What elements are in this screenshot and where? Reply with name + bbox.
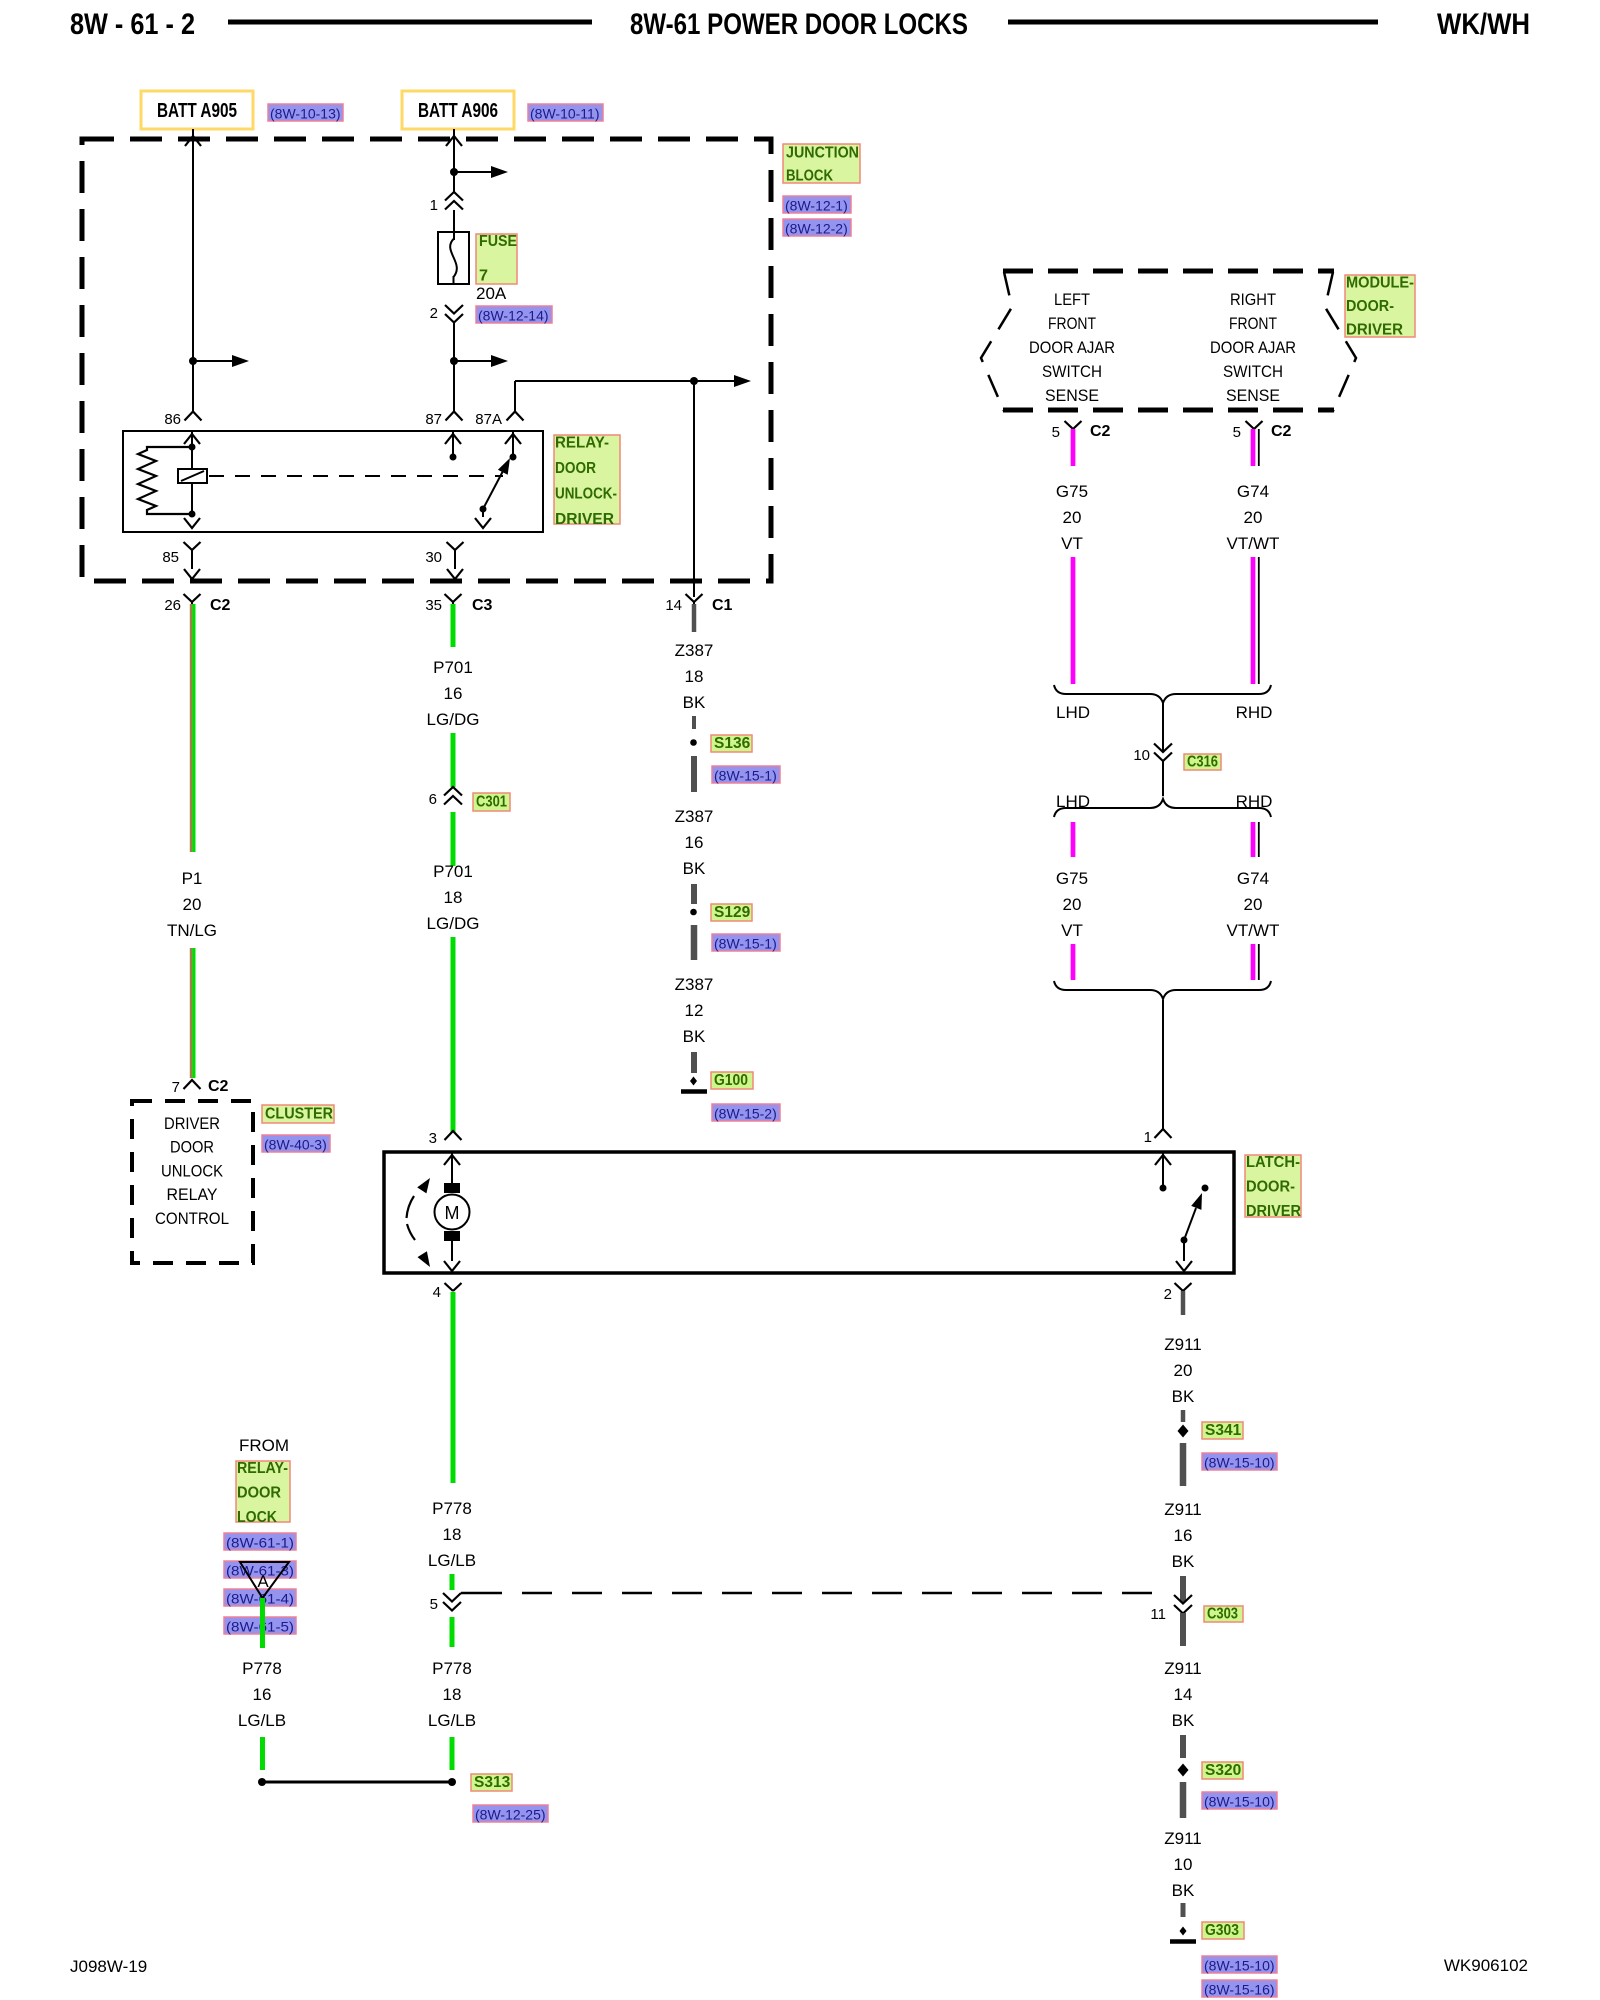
svg-text:JUNCTION: JUNCTION xyxy=(786,145,859,162)
svg-text:A: A xyxy=(257,1572,269,1591)
svg-text:BATT A906: BATT A906 xyxy=(418,100,498,122)
svg-text:LG/DG: LG/DG xyxy=(427,914,480,933)
svg-text:20: 20 xyxy=(1244,895,1263,914)
svg-text:P1: P1 xyxy=(182,869,203,888)
svg-text:18: 18 xyxy=(685,667,704,686)
svg-text:1: 1 xyxy=(430,197,438,214)
svg-text:WK/WH: WK/WH xyxy=(1437,8,1530,41)
svg-text:RELAY-: RELAY- xyxy=(555,435,609,452)
svg-text:Z387: Z387 xyxy=(675,807,714,826)
svg-text:18: 18 xyxy=(444,888,463,907)
svg-text:BK: BK xyxy=(1172,1881,1195,1900)
svg-text:G303: G303 xyxy=(1205,1922,1239,1939)
svg-text:87: 87 xyxy=(425,411,442,428)
svg-text:RELAY: RELAY xyxy=(167,1185,218,1204)
svg-text:18: 18 xyxy=(443,1685,462,1704)
svg-text:DOOR-: DOOR- xyxy=(1346,298,1394,315)
svg-text:C301: C301 xyxy=(476,794,507,811)
svg-text:2: 2 xyxy=(430,305,438,322)
svg-text:BK: BK xyxy=(683,693,706,712)
svg-text:TN/LG: TN/LG xyxy=(167,921,217,940)
svg-text:Z911: Z911 xyxy=(1164,1335,1202,1354)
svg-text:(8W-15-10): (8W-15-10) xyxy=(1204,1455,1275,1471)
svg-text:14: 14 xyxy=(665,597,682,614)
svg-text:(8W-15-1): (8W-15-1) xyxy=(714,768,777,784)
svg-text:(8W-10-11): (8W-10-11) xyxy=(530,106,600,122)
svg-text:C2: C2 xyxy=(1090,423,1111,440)
svg-text:CLUSTER: CLUSTER xyxy=(265,1106,333,1123)
svg-text:BLOCK: BLOCK xyxy=(786,168,834,185)
svg-text:(8W-12-1): (8W-12-1) xyxy=(785,198,848,214)
svg-text:16: 16 xyxy=(1174,1526,1193,1545)
svg-text:7: 7 xyxy=(172,1079,180,1096)
svg-text:RIGHT: RIGHT xyxy=(1230,290,1276,309)
svg-text:G74: G74 xyxy=(1237,482,1269,501)
svg-text:MODULE-: MODULE- xyxy=(1346,275,1414,292)
svg-text:SWITCH: SWITCH xyxy=(1042,362,1102,381)
svg-text:8W - 61 - 2: 8W - 61 - 2 xyxy=(70,8,195,41)
svg-text:VT: VT xyxy=(1061,534,1083,553)
svg-text:30: 30 xyxy=(425,549,442,566)
svg-text:C2: C2 xyxy=(1271,423,1292,440)
svg-text:FUSE: FUSE xyxy=(479,233,517,250)
svg-text:LG/LB: LG/LB xyxy=(428,1711,476,1730)
svg-text:C316: C316 xyxy=(1187,754,1218,771)
svg-text:S313: S313 xyxy=(474,1774,511,1791)
svg-text:FRONT: FRONT xyxy=(1048,314,1096,333)
svg-text:7: 7 xyxy=(479,268,488,285)
svg-text:26: 26 xyxy=(164,597,181,614)
svg-text:(8W-12-14): (8W-12-14) xyxy=(478,308,549,324)
svg-text:LG/DG: LG/DG xyxy=(427,710,480,729)
svg-text:P778: P778 xyxy=(432,1659,472,1678)
svg-text:DRIVER: DRIVER xyxy=(1346,322,1403,339)
svg-text:G74: G74 xyxy=(1237,869,1269,888)
svg-text:3: 3 xyxy=(429,1130,437,1147)
svg-text:P778: P778 xyxy=(242,1659,282,1678)
svg-text:LHD: LHD xyxy=(1056,703,1090,722)
svg-text:Z911: Z911 xyxy=(1164,1829,1202,1848)
svg-text:(8W-61-1): (8W-61-1) xyxy=(226,1535,294,1551)
svg-text:35: 35 xyxy=(425,597,442,614)
svg-text:87A: 87A xyxy=(475,411,502,428)
svg-text:10: 10 xyxy=(1133,747,1150,764)
svg-text:S341: S341 xyxy=(1205,1422,1242,1439)
svg-text:SENSE: SENSE xyxy=(1226,386,1280,405)
svg-text:5: 5 xyxy=(430,1596,438,1613)
svg-text:20: 20 xyxy=(183,895,202,914)
svg-text:DOOR-: DOOR- xyxy=(1246,1179,1295,1196)
svg-text:DRIVER: DRIVER xyxy=(164,1114,220,1133)
svg-text:SENSE: SENSE xyxy=(1045,386,1099,405)
svg-text:RELAY-: RELAY- xyxy=(237,1460,288,1477)
svg-text:18: 18 xyxy=(443,1525,462,1544)
svg-text:VT/WT: VT/WT xyxy=(1227,534,1280,553)
svg-text:16: 16 xyxy=(253,1685,272,1704)
svg-text:LOCK: LOCK xyxy=(237,1509,278,1526)
svg-text:Z387: Z387 xyxy=(675,641,714,660)
svg-text:Z911: Z911 xyxy=(1164,1500,1202,1519)
svg-text:20: 20 xyxy=(1174,1361,1193,1380)
svg-text:J098W-19: J098W-19 xyxy=(70,1957,147,1976)
svg-text:BATT A905: BATT A905 xyxy=(157,100,237,122)
svg-text:FROM: FROM xyxy=(239,1436,289,1455)
svg-text:RHD: RHD xyxy=(1236,703,1273,722)
svg-text:WK906102: WK906102 xyxy=(1444,1956,1528,1975)
svg-text:BK: BK xyxy=(683,859,706,878)
svg-text:G75: G75 xyxy=(1056,482,1088,501)
svg-text:(8W-15-10): (8W-15-10) xyxy=(1204,1794,1275,1810)
svg-text:DOOR: DOOR xyxy=(170,1138,214,1157)
svg-text:BK: BK xyxy=(1172,1552,1195,1571)
svg-text:(8W-15-16): (8W-15-16) xyxy=(1204,1982,1275,1998)
svg-text:BK: BK xyxy=(1172,1387,1195,1406)
svg-text:4: 4 xyxy=(433,1284,441,1301)
svg-text:UNLOCK-: UNLOCK- xyxy=(555,486,617,503)
svg-text:M: M xyxy=(445,1203,460,1223)
svg-text:86: 86 xyxy=(164,411,181,428)
svg-text:BK: BK xyxy=(683,1027,706,1046)
svg-text:16: 16 xyxy=(444,684,463,703)
svg-text:CONTROL: CONTROL xyxy=(155,1209,229,1228)
svg-text:C1: C1 xyxy=(712,597,733,614)
svg-text:C2: C2 xyxy=(208,1078,229,1095)
svg-text:C2: C2 xyxy=(210,597,231,614)
svg-text:S136: S136 xyxy=(714,735,751,752)
svg-text:2: 2 xyxy=(1164,1286,1172,1303)
svg-text:VT/WT: VT/WT xyxy=(1227,921,1280,940)
svg-text:G75: G75 xyxy=(1056,869,1088,888)
svg-text:P701: P701 xyxy=(433,862,473,881)
svg-text:8W-61 POWER DOOR LOCKS: 8W-61 POWER DOOR LOCKS xyxy=(630,8,968,41)
svg-text:(8W-12-2): (8W-12-2) xyxy=(785,221,848,237)
svg-text:(8W-40-3): (8W-40-3) xyxy=(264,1137,327,1153)
svg-text:(8W-10-13): (8W-10-13) xyxy=(270,106,341,122)
svg-text:(8W-15-2): (8W-15-2) xyxy=(714,1106,777,1122)
svg-text:Z911: Z911 xyxy=(1164,1659,1202,1678)
svg-text:DOOR: DOOR xyxy=(555,460,596,477)
svg-text:SWITCH: SWITCH xyxy=(1223,362,1283,381)
svg-text:DRIVER: DRIVER xyxy=(555,511,614,528)
svg-text:BK: BK xyxy=(1172,1711,1195,1730)
svg-text:LATCH-: LATCH- xyxy=(1246,1154,1300,1171)
svg-text:10: 10 xyxy=(1174,1855,1193,1874)
svg-text:12: 12 xyxy=(685,1001,704,1020)
svg-text:85: 85 xyxy=(162,549,179,566)
svg-text:FRONT: FRONT xyxy=(1229,314,1277,333)
svg-text:6: 6 xyxy=(429,791,437,808)
svg-text:DOOR: DOOR xyxy=(237,1484,281,1501)
svg-text:5: 5 xyxy=(1052,424,1060,441)
svg-text:S129: S129 xyxy=(714,904,751,921)
svg-text:20: 20 xyxy=(1244,508,1263,527)
svg-text:Z387: Z387 xyxy=(675,975,714,994)
svg-text:14: 14 xyxy=(1174,1685,1193,1704)
svg-text:P778: P778 xyxy=(432,1499,472,1518)
svg-text:16: 16 xyxy=(685,833,704,852)
svg-text:(8W-15-1): (8W-15-1) xyxy=(714,936,777,952)
svg-text:LG/LB: LG/LB xyxy=(428,1551,476,1570)
svg-text:VT: VT xyxy=(1061,921,1083,940)
svg-text:C3: C3 xyxy=(472,597,493,614)
svg-text:20: 20 xyxy=(1063,895,1082,914)
svg-text:S320: S320 xyxy=(1205,1762,1241,1779)
svg-text:UNLOCK: UNLOCK xyxy=(161,1161,224,1180)
svg-text:(8W-15-10): (8W-15-10) xyxy=(1204,1958,1275,1974)
svg-text:LG/LB: LG/LB xyxy=(238,1711,286,1730)
svg-text:G100: G100 xyxy=(714,1072,748,1089)
svg-text:20A: 20A xyxy=(476,284,507,303)
svg-text:C303: C303 xyxy=(1207,1606,1238,1623)
svg-text:DOOR AJAR: DOOR AJAR xyxy=(1210,338,1296,357)
svg-text:(8W-12-25): (8W-12-25) xyxy=(475,1807,546,1823)
svg-text:LEFT: LEFT xyxy=(1054,290,1090,309)
svg-text:11: 11 xyxy=(1150,1606,1166,1623)
svg-text:DRIVER: DRIVER xyxy=(1246,1203,1301,1220)
svg-text:DOOR AJAR: DOOR AJAR xyxy=(1029,338,1115,357)
svg-text:5: 5 xyxy=(1233,424,1241,441)
svg-text:1: 1 xyxy=(1144,1129,1152,1146)
svg-text:20: 20 xyxy=(1063,508,1082,527)
svg-text:P701: P701 xyxy=(433,658,473,677)
